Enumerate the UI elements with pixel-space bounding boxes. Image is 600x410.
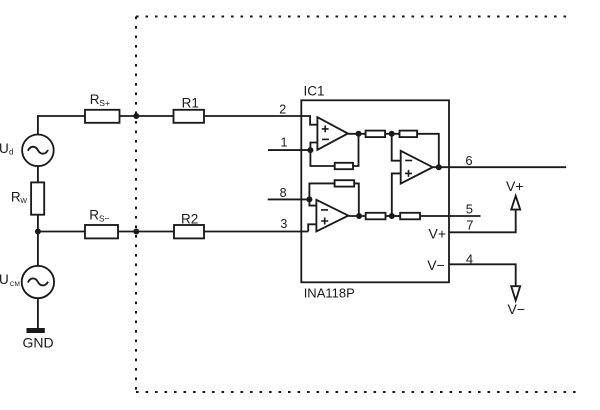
wire A1 feedback to output: [353, 134, 359, 166]
svg-text:5: 5: [466, 201, 473, 216]
svg-text:2: 2: [279, 102, 286, 116]
dashed boundary bottom: [136, 391, 576, 393]
wire A1 output: [348, 133, 366, 135]
wire Ud bottom to Rw: [37, 166, 39, 182]
node Y bottom row: [389, 213, 395, 219]
wire Rw to node B: [37, 215, 39, 232]
svg-text:V+: V+: [506, 178, 524, 194]
V- arrow: [511, 286, 520, 300]
wire node Y to A3 plus input: [392, 173, 401, 216]
svg-text:GND: GND: [23, 334, 54, 350]
resistor Rs+: [85, 110, 120, 123]
resistor bottom row first: [366, 213, 386, 220]
svg-text:V−: V−: [427, 257, 445, 273]
resistor top row first: [366, 131, 386, 138]
node pin8 junction: [306, 196, 312, 202]
wire Rs- to R2: [118, 231, 174, 233]
svg-text:S−: S−: [99, 214, 110, 224]
resistor bottom row second: [400, 213, 420, 220]
wire top row to A3 output column: [417, 134, 439, 167]
op-amp A2: [316, 200, 348, 232]
ground: [27, 328, 45, 333]
node A2 output: [356, 213, 362, 219]
dashed boundary left: [135, 17, 137, 393]
wire Ud top to row A: [38, 116, 85, 135]
wire A2 feedback upper: [309, 183, 334, 199]
node A1 output: [356, 131, 362, 137]
svg-text:8: 8: [280, 186, 287, 200]
source Ud: [22, 135, 54, 167]
wire node B to Rs-: [38, 231, 85, 233]
node pin1 junction: [307, 147, 313, 153]
svg-text:R2: R2: [181, 212, 198, 227]
source Ucm: [22, 266, 54, 298]
svg-text:4: 4: [466, 252, 473, 267]
resistor A1 feedback: [335, 163, 353, 169]
node A3 output: [436, 164, 442, 170]
wire node X to A3 minus input: [392, 134, 401, 161]
op-amp A1: [317, 117, 348, 150]
wire pin8 node to A2 minus input: [309, 199, 316, 205]
op-amp A1 box region: IC1: [301, 100, 449, 282]
svg-text:R1: R1: [182, 95, 199, 110]
wire A2 output: [348, 215, 365, 217]
resistor Rw: [31, 182, 44, 214]
wire top row mid: [385, 133, 399, 135]
resistor Rs-: [85, 225, 118, 238]
wire bottom row mid: [386, 215, 401, 217]
svg-text:R: R: [89, 207, 99, 222]
svg-text:W: W: [20, 198, 27, 205]
svg-text:7: 7: [466, 218, 473, 233]
wire pin 2 to A1 plus input: [301, 116, 317, 125]
svg-text:INA118P: INA118P: [304, 285, 355, 300]
op-amp A3: [401, 151, 433, 184]
wire pin 3 to A2 plus input: [308, 224, 316, 231]
node junction C: [133, 229, 139, 235]
wire pin1 node to A1 minus input: [310, 143, 317, 151]
svg-text:IC1: IC1: [304, 83, 325, 98]
svg-text:CM: CM: [10, 281, 20, 288]
svg-text:R: R: [90, 92, 100, 107]
node X top row: [389, 131, 395, 137]
node junction B: [35, 229, 41, 235]
wire A2 feedback to output: [354, 183, 359, 216]
wire A1 feedback lower: [310, 150, 334, 166]
svg-text:3: 3: [280, 217, 287, 231]
wire pin 1 stub: [268, 149, 310, 151]
wire R1 to pin 2: [204, 115, 301, 117]
svg-text:U: U: [0, 272, 9, 287]
wire pin 7 to V+ arrow: [449, 210, 516, 233]
svg-text:V+: V+: [429, 226, 447, 242]
svg-text:V−: V−: [508, 301, 526, 317]
resistor top row second: [400, 131, 418, 138]
svg-text:d: d: [9, 148, 13, 157]
V+ arrow: [511, 196, 520, 210]
resistor R2: [174, 225, 204, 238]
svg-text:1: 1: [281, 136, 288, 150]
wire pin 6 output: [433, 166, 567, 168]
svg-text:R: R: [11, 190, 21, 205]
wire pin 4 to V- arrow: [449, 264, 516, 286]
wire Ucm to ground: [37, 298, 39, 328]
resistor R1: [174, 110, 205, 123]
wire pin 8 stub: [268, 198, 310, 200]
dashed boundary top: [136, 16, 570, 18]
svg-text:6: 6: [465, 153, 472, 168]
node junction A: [133, 113, 139, 119]
wire pin 5 stub: [420, 215, 481, 217]
wire Rs+ to R1: [120, 115, 174, 117]
wire R2 to pin 3: [204, 231, 308, 233]
svg-text:S+: S+: [99, 98, 110, 108]
wire node B to Ucm: [37, 232, 39, 266]
resistor A2 feedback: [335, 180, 355, 186]
svg-text:U: U: [0, 141, 9, 156]
